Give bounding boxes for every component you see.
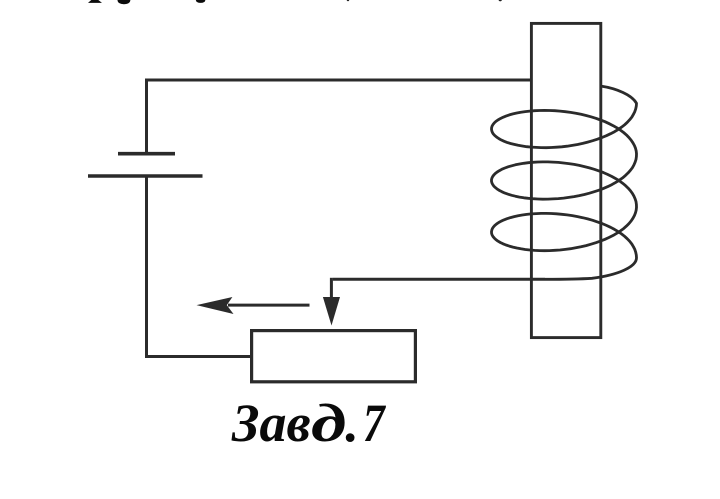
wire: top horizontal from battery to core xyxy=(145,79,531,82)
cropped text fragment 1 xyxy=(88,0,102,3)
battery GB1 short plate xyxy=(118,152,175,156)
cropped text fragment 4 xyxy=(347,0,350,1)
cropped text fragment 5 xyxy=(499,0,503,1)
core (iron core rectangle) xyxy=(531,23,600,337)
coil L1 winding (spiral) xyxy=(492,86,637,279)
wire: battery top vertical xyxy=(145,79,148,153)
battery GB1 long plate xyxy=(88,174,203,178)
cropped text fragment 2 xyxy=(117,0,130,4)
movement arrow shaft (left) xyxy=(228,304,310,307)
cropped text fragment 3 xyxy=(196,0,206,3)
slider arrowhead (down) xyxy=(323,297,340,326)
wire: slider vertical drop xyxy=(330,278,333,298)
wire: battery bottom vertical xyxy=(145,176,148,358)
wire: exit horizontal to slider xyxy=(333,278,545,281)
rheostat R1 body xyxy=(252,331,416,382)
wire: bottom horizontal to rheostat xyxy=(145,355,251,358)
movement arrow head (left) xyxy=(197,297,234,314)
caption: Завд. 7 xyxy=(232,392,492,454)
